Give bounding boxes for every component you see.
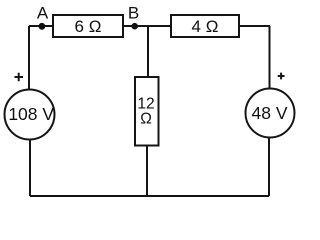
svg-text:A: A	[37, 4, 49, 23]
svg-text:48 V: 48 V	[252, 103, 288, 123]
svg-text:108 V: 108 V	[8, 104, 54, 124]
svg-text:Ω: Ω	[140, 110, 152, 127]
svg-text:B: B	[128, 4, 139, 23]
svg-text:6 Ω: 6 Ω	[75, 17, 102, 36]
svg-text:4 Ω: 4 Ω	[192, 17, 219, 36]
